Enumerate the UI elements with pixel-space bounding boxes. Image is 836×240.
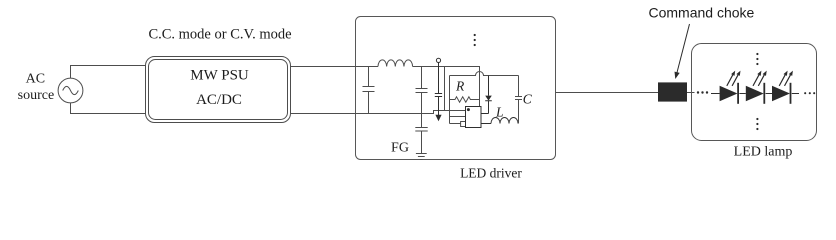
svg-text:AC: AC bbox=[26, 71, 45, 86]
svg-text:Command choke: Command choke bbox=[649, 5, 755, 21]
svg-text:C.C. mode or C.V. mode: C.C. mode or C.V. mode bbox=[148, 27, 291, 43]
svg-text:L: L bbox=[495, 105, 504, 120]
svg-text:MW PSU: MW PSU bbox=[190, 68, 249, 84]
svg-text:AC/DC: AC/DC bbox=[196, 92, 242, 108]
svg-text:R: R bbox=[455, 78, 465, 93]
svg-text:LED lamp: LED lamp bbox=[734, 145, 793, 160]
svg-text:FG: FG bbox=[391, 141, 409, 156]
svg-text:source: source bbox=[18, 88, 55, 103]
svg-text:LED driver: LED driver bbox=[460, 166, 522, 181]
svg-text:C: C bbox=[523, 91, 533, 106]
